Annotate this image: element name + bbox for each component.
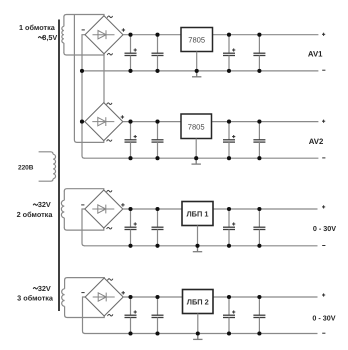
capacitor C9 electrolytic [125, 209, 137, 246]
stub bridge2 left tip to bus [82, 121, 85, 123]
junction dots section 4 [128, 295, 261, 336]
label AV1 [308, 50, 323, 59]
section 1 positive rail [123, 34, 318, 36]
BR2 terminal marks [107, 103, 125, 141]
bridge rectifier BR4 [85, 278, 123, 316]
LBP1 ground pin [197, 226, 199, 246]
transformer core [58, 20, 60, 312]
svg-text:8,5V: 8,5V [42, 33, 57, 42]
ground symbol LBP2 [193, 334, 202, 340]
diode inside BR3 [92, 205, 114, 214]
primary winding 220V [39, 152, 56, 181]
bridge rectifier BR2 [85, 103, 123, 141]
capacitor C16 [253, 297, 265, 334]
svg-text:0 - 30V: 0 - 30V [313, 224, 336, 233]
BR3 terminal marks [81, 190, 124, 229]
negative wire bridge4 to rail [83, 297, 86, 334]
ground symbol LBP1 [193, 246, 202, 252]
capacitor C2 [152, 35, 164, 71]
diode inside BR2 [92, 117, 114, 126]
section 4 positive rail [123, 296, 317, 298]
capacitor C10 [152, 209, 164, 246]
section 2 negative rail [84, 157, 318, 159]
svg-text:ЛБП 1: ЛБП 1 [187, 209, 209, 218]
output terminals 0-30V (2) [322, 293, 325, 333]
svg-text:220В: 220В [18, 165, 34, 172]
ground symbol U2 [192, 158, 201, 164]
section 4 negative rail [85, 333, 318, 335]
label ~32V (3) [33, 284, 51, 293]
capacitor C5 electrolytic [125, 122, 137, 159]
svg-text:32V: 32V [38, 284, 51, 293]
junction dots section 3 [128, 207, 261, 248]
7805 regulator U1 [181, 28, 213, 52]
label 0 - 30V (2) [312, 314, 335, 323]
svg-text:ЛБП 2: ЛБП 2 [187, 297, 209, 306]
capacitor C13 electrolytic [125, 297, 137, 334]
label 0 - 30V (1) [313, 224, 336, 233]
output terminals 0-30V (1) [322, 205, 325, 245]
ground symbol U1 [192, 71, 201, 77]
wire AC branch down to bridge2 AC bottom [74, 15, 103, 143]
capacitor C4 [253, 35, 265, 71]
wire winding1 top to bridge1 AC top [64, 15, 104, 18]
label AV2 [309, 137, 324, 146]
label 1 obmotka [19, 23, 56, 32]
BR1 terminal marks [82, 16, 126, 55]
junction dots section 2 [80, 120, 262, 161]
svg-text:AV2: AV2 [309, 137, 324, 146]
U1 ground pin [196, 52, 198, 71]
diode inside BR1 [93, 30, 115, 39]
section 1 negative rail [82, 70, 318, 72]
secondary winding 2 coil [61, 191, 64, 228]
regulator LBP2 [183, 290, 214, 314]
capacitor C11 electrolytic [223, 209, 235, 246]
svg-text:2 обмотка: 2 обмотка [17, 210, 54, 219]
wire winding2 bottom to bridge3 AC bottom [64, 228, 104, 231]
secondary winding 3 coil [62, 280, 65, 316]
svg-text:0 - 30V: 0 - 30V [312, 314, 335, 323]
bridge rectifier BR3 [85, 190, 123, 228]
section 2 positive rail [123, 121, 319, 123]
bridge rectifier BR1 [85, 16, 123, 54]
wire winding1 bottom to bridge1 AC bottom [64, 53, 104, 56]
output terminals AV1 [322, 33, 325, 70]
wire winding3 bottom to bridge4 AC bottom [65, 315, 105, 318]
capacitor C12 [253, 209, 265, 246]
label 3 obmotka [17, 293, 54, 302]
svg-text:1 обмотка: 1 обмотка [19, 23, 56, 32]
capacitor C6 [152, 122, 164, 159]
negative wire bridge3 to rail [82, 209, 85, 246]
negative bus bridge1/bridge2 to rails [82, 35, 85, 159]
svg-text:7805: 7805 [188, 122, 205, 131]
capacitor C8 [253, 122, 265, 159]
capacitor C1 electrolytic [125, 35, 137, 71]
BR4 terminal marks [81, 279, 125, 316]
secondary winding 1 coil [62, 17, 64, 54]
svg-text:3 обмотка: 3 обмотка [17, 293, 54, 302]
regulator LBP1 [182, 202, 213, 226]
U2 ground pin [195, 139, 197, 159]
LBP2 ground pin [197, 314, 199, 334]
capacitor C15 electrolytic [223, 297, 235, 334]
output terminals AV2 [322, 120, 325, 158]
capacitor C14 [152, 297, 164, 334]
7805 regulator U2 [181, 114, 212, 139]
capacitor C3 electrolytic [223, 35, 235, 71]
wire winding3 top to bridge4 AC top [65, 278, 105, 281]
label 2 obmotka [17, 210, 54, 219]
diode inside BR4 [93, 293, 115, 302]
section 3 negative rail [84, 245, 318, 247]
wire winding2 top to bridge3 AC top [64, 189, 104, 192]
section 3 positive rail [123, 208, 318, 210]
svg-text:AV1: AV1 [308, 50, 323, 59]
label ~32V (2) [33, 200, 51, 209]
junction dots section 1 [80, 33, 262, 73]
capacitor C7 electrolytic [223, 122, 235, 159]
svg-text:32V: 32V [38, 200, 51, 209]
label ~8,5V [38, 33, 57, 42]
wire bridge1 AC bottom to bridge2 AC top [103, 54, 105, 103]
label 220V [18, 165, 34, 172]
svg-text:7805: 7805 [188, 36, 205, 45]
